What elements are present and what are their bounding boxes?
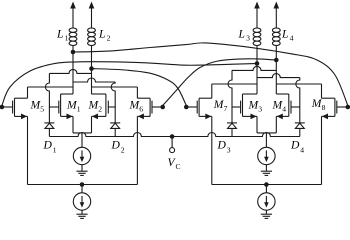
- wire M3 gate to node D: [232, 66, 276, 70]
- wire M8 drain to node D: [276, 84, 321, 98]
- transistor M8: [322, 98, 348, 119]
- wire VC rail: [49, 133, 299, 137]
- ground I4: [261, 214, 272, 218]
- M7 gate terminal: [184, 105, 189, 110]
- svg-text:7: 7: [224, 104, 228, 113]
- M8 gate terminal: [346, 105, 350, 110]
- wire M6 drain to node B: [92, 87, 138, 98]
- node D junction: [274, 58, 279, 63]
- VC rail junction: [170, 134, 175, 139]
- wire M3 M4 source merge: [257, 133, 276, 147]
- svg-text:1: 1: [53, 146, 57, 155]
- ground I3: [261, 171, 272, 175]
- transistor M6: [137, 98, 162, 119]
- left bottom rail junction: [80, 182, 85, 187]
- svg-text:6: 6: [139, 104, 143, 113]
- wire M2 source drop: [91, 116, 93, 132]
- M7 label: [213, 98, 228, 113]
- wire M2 gate to node A: [73, 78, 115, 82]
- M6 label: [129, 98, 144, 113]
- transistor M5: [2, 98, 28, 119]
- M3 label: [248, 98, 263, 113]
- right bottom rail junction: [264, 182, 269, 187]
- wire node D vertical: [275, 46, 277, 95]
- wire node C to M5 gate: [2, 62, 257, 106]
- ground I2: [76, 214, 87, 218]
- wire M7 drain to node C: [212, 84, 257, 98]
- svg-text:1: 1: [65, 33, 69, 42]
- wire M5 source drop: [27, 116, 29, 184]
- D2 label: [111, 139, 125, 155]
- wire I4 feed: [265, 185, 267, 193]
- M1 label: [66, 98, 81, 113]
- wire M8 source drop: [321, 116, 323, 184]
- svg-text:D: D: [43, 139, 53, 152]
- wire I4 to ground: [265, 210, 267, 214]
- wire M4 gate to node C: [257, 74, 300, 78]
- wire left bottom rail: [28, 184, 138, 186]
- current source I3: [258, 147, 275, 164]
- M2 label: [88, 98, 103, 113]
- varactor D3: [227, 107, 237, 137]
- svg-text:D: D: [290, 139, 300, 152]
- wire M3 gate riser: [228, 70, 232, 107]
- D4 label: [290, 139, 304, 155]
- svg-text:2: 2: [107, 33, 111, 42]
- wire M6 source drop: [136, 116, 138, 184]
- svg-text:L: L: [238, 28, 245, 41]
- wire M1 gate to node B: [49, 69, 91, 73]
- svg-text:C: C: [176, 162, 181, 171]
- inductor L3: [253, 28, 261, 46]
- node A junction: [71, 50, 76, 55]
- wire right bottom rail: [212, 184, 322, 186]
- wire node B to M7 gate: [92, 69, 187, 106]
- inductor L1 label: [56, 28, 69, 43]
- svg-text:L: L: [98, 28, 105, 41]
- transistor M4: [276, 94, 300, 119]
- transistor M3: [232, 94, 257, 119]
- svg-text:4: 4: [282, 104, 286, 113]
- wire M1 M2 source merge: [73, 133, 92, 147]
- varactor D2: [110, 107, 120, 137]
- wire M2 gate riser: [111, 82, 115, 107]
- svg-text:L: L: [281, 28, 288, 41]
- svg-text:2: 2: [121, 146, 125, 155]
- svg-text:8: 8: [322, 103, 326, 112]
- svg-text:D: D: [217, 139, 227, 152]
- D3 label: [217, 139, 231, 155]
- inductor L4: [272, 28, 280, 46]
- svg-text:5: 5: [40, 104, 44, 113]
- wire I3 to ground: [265, 165, 267, 172]
- wire node A to M8 gate: [73, 43, 348, 106]
- wire M3 source drop: [256, 116, 258, 132]
- inductor L1: [69, 28, 77, 46]
- svg-text:3: 3: [258, 104, 262, 113]
- wire M7 source drop: [211, 116, 213, 184]
- wire M4 gate riser: [296, 78, 300, 107]
- M4 label: [272, 98, 287, 113]
- wire M1 gate riser: [45, 73, 49, 107]
- svg-text:D: D: [111, 139, 121, 152]
- current source I1: [73, 147, 90, 164]
- svg-text:4: 4: [290, 33, 294, 42]
- varactor D4: [295, 107, 305, 137]
- wire node D to M6 gate: [163, 59, 277, 106]
- svg-text:3: 3: [227, 146, 231, 155]
- wire M4 source drop: [275, 116, 277, 132]
- M8 label: [311, 97, 326, 112]
- svg-text:2: 2: [98, 104, 102, 113]
- wire M5 drain to node A: [28, 87, 74, 98]
- transistor M2: [92, 94, 116, 119]
- svg-text:1: 1: [77, 104, 81, 113]
- wire I2 to ground: [81, 210, 83, 214]
- wire I1 to ground: [81, 165, 83, 172]
- VC label: [168, 156, 181, 171]
- wire node C vertical: [256, 46, 258, 95]
- transistor M1: [49, 94, 73, 119]
- M5 label: [30, 98, 45, 113]
- current source I2: [73, 193, 90, 210]
- inductor L4 label: [281, 28, 294, 43]
- svg-text:L: L: [56, 28, 63, 41]
- output arrow right1: [254, 2, 260, 29]
- wire M1 source drop: [72, 116, 74, 132]
- inductor L3 label: [238, 28, 251, 43]
- wire node A vertical: [72, 46, 74, 95]
- VC terminal: [170, 137, 175, 153]
- M6 gate terminal: [160, 105, 165, 110]
- output arrow left1: [70, 2, 76, 29]
- D1 label: [43, 139, 57, 155]
- output arrow left2: [89, 2, 95, 29]
- svg-text:4: 4: [300, 146, 304, 155]
- output arrow right2: [274, 2, 280, 29]
- wire I2 feed: [81, 185, 83, 193]
- transistor M7: [186, 98, 212, 119]
- node C junction: [255, 61, 260, 66]
- wire node B vertical: [91, 46, 93, 95]
- inductor L2: [88, 28, 96, 46]
- node B junction: [89, 66, 94, 71]
- inductor L2 label: [98, 28, 111, 43]
- ground I1: [76, 171, 87, 175]
- varactor D1: [44, 107, 54, 137]
- svg-text:3: 3: [246, 33, 250, 42]
- M5 gate terminal: [0, 105, 4, 110]
- current source I4: [258, 193, 275, 210]
